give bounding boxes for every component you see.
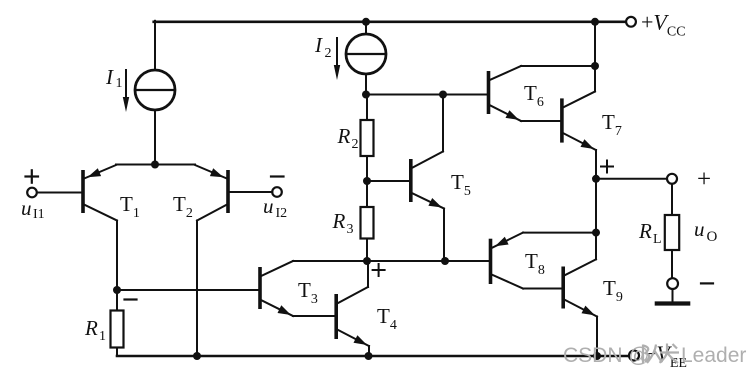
terminal uI1 + [27,188,37,198]
svg-text:I2: I2 [276,206,288,221]
label + at output node [601,161,613,173]
label - at uO [701,282,713,284]
label + above uI1 [26,170,39,182]
svg-text:u: u [263,194,274,218]
arrow I2 current direction [334,38,340,80]
label T7 [602,110,622,139]
label - above uI2 [271,175,284,177]
label T2 [173,192,193,221]
wire emitter rail T1 T2 [116,164,195,166]
node T5 emitter junction [441,257,449,265]
node T4 emitter on rail [365,352,373,360]
arrow I1 current direction [123,70,129,112]
wire RL top lead [671,184,673,215]
node T2 collector on rail [193,352,201,360]
watermark CSDN [563,344,746,368]
terminal +Vcc [626,17,636,27]
svg-text:R: R [332,209,346,233]
terminal uO - [667,278,678,289]
wire T6 collector [521,65,595,67]
svg-text:R: R [638,219,652,243]
wire R1 node to T3 base [117,289,258,291]
node below I2 [362,91,370,99]
label uI1 [21,196,45,222]
label RL [638,219,662,247]
transistor T8 [491,233,524,289]
label -Vee [644,341,687,371]
wire T5 collector up [442,95,444,152]
svg-text:I: I [314,33,323,57]
label T5 [451,170,471,199]
transistor T3 [260,261,293,316]
transistor T5 [411,152,444,209]
wire T9 collector up [595,233,597,260]
svg-text:L: L [653,232,662,247]
wire I2 node to T6 base [366,94,487,96]
wire output to terminal [596,178,667,180]
label R3 [332,209,354,237]
transistor T6 [489,66,522,121]
label - at R1 node [125,298,137,300]
label R2 [337,124,359,152]
svg-text:1: 1 [99,329,106,344]
wire I1 top to rail [154,21,156,71]
node T9 emitter on rail [593,352,601,360]
svg-text:O: O [707,229,718,245]
transistor T1 [83,165,117,221]
svg-text:3: 3 [347,222,354,237]
svg-text:I1: I1 [33,207,45,222]
node T1 collector R1 [113,286,121,294]
label I2 [314,33,332,61]
wire T5 emitter down [443,209,445,262]
label I1 [105,65,123,91]
current source I1 [135,70,175,110]
transistor T7 [562,92,596,151]
svg-text:I: I [105,65,114,89]
label uO [694,217,718,245]
node Vcc rail branch [591,18,599,26]
terminal -Vee [629,351,639,361]
node emitter common T1 T2 [151,161,159,169]
svg-text:2: 2 [325,46,332,61]
wire T5 base node to T5 [367,180,409,182]
ground stub [672,289,674,302]
svg-text:2: 2 [352,137,359,152]
wire I1 bottom to emitter node [154,110,156,165]
node I2 top on rail [362,18,370,26]
wire T9 emitter down [596,317,598,357]
label T6 [524,81,544,110]
wire top +Vcc rail [154,20,627,23]
wire T8 emitter [523,232,596,234]
wire T4 collector up [367,261,369,287]
svg-text:CSDN @: CSDN @ [563,344,650,367]
svg-text:1: 1 [116,76,123,91]
svg-text:+: + [697,166,711,193]
wire base T1 [37,192,82,194]
svg-text:R: R [84,316,98,340]
label uI2 [263,194,287,221]
wire mid horizontal to T8 base [293,260,489,262]
wire output node down [595,179,597,233]
label T3 [298,278,318,307]
label T4 [377,304,397,333]
label +Vcc [641,10,686,40]
resistor R3 [361,181,374,261]
wire T7 collector up [594,66,596,92]
wire T7 emitter down [595,150,597,179]
label + at uO [697,166,711,193]
wire T8 collector to T9 base [523,288,561,290]
node T6 T7 collectors [591,62,599,70]
wire Vcc branch down [594,22,596,66]
svg-text:R: R [337,124,351,148]
terminal uO + [667,174,677,184]
wire T3 emitter to T4 base [293,315,334,317]
label + at mid node [373,264,385,276]
resistor R2 [361,95,374,182]
wire T6 emitter to T7 base [521,120,560,122]
resistor R1 [111,290,124,356]
current source I2 [346,34,386,74]
label T9 [603,276,623,305]
svg-text:Leader: Leader [681,344,746,367]
node T5 base [363,177,371,185]
label R1 [84,316,106,344]
wire base T2 [228,191,272,193]
node T8 emitter junction [592,229,600,237]
ground [657,301,688,305]
node T5 collector junction [439,91,447,99]
transistor T2 [195,165,228,221]
transistor T4 [336,287,369,346]
label T1 [120,192,140,221]
label T8 [525,249,545,278]
svg-text:u: u [694,217,705,241]
wire T2 collector down [196,221,198,357]
wire I2 bottom lead [365,74,367,95]
wire bottom -Vee rail [117,355,630,358]
wire T1 collector down [116,221,118,291]
wire RL bottom lead [671,250,673,278]
resistor RL [665,215,679,250]
wire T4 emitter down [368,346,370,356]
svg-text:u: u [21,196,32,220]
wire I2 top lead [365,22,367,35]
node + below R3 [363,257,371,265]
terminal uI2 - [272,187,282,197]
transistor T9 [563,259,597,316]
node output + [592,175,600,183]
